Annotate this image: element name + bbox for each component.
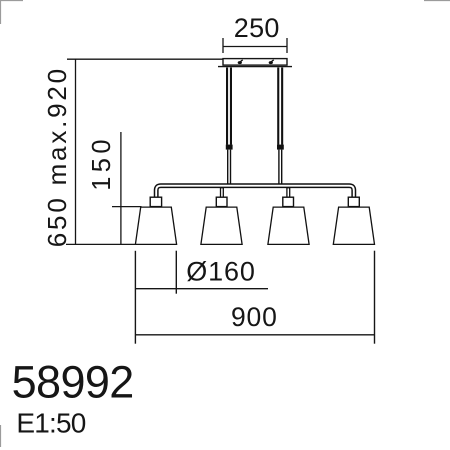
page corner mark top-right [424,0,450,2]
screw mark left [238,59,244,64]
socket 1 [150,197,161,206]
dimension 250 line [223,38,287,53]
svg-text:58992: 58992 [12,357,134,408]
dimension 900 line [135,334,374,336]
svg-text:900: 900 [231,302,278,332]
extension line shade top (150 tick) [112,206,142,208]
socket 3 [283,197,294,206]
horizontal bar tube with end elbows [156,186,354,198]
extension line shade1 right (Ø160 right tick) [175,251,177,294]
shade 4 [333,207,374,244]
extension line ceiling (650 top) [67,58,223,60]
screw mark right [269,59,275,64]
rod 2 adjuster [277,145,284,150]
suspension rod 2 upper tube [277,68,283,145]
rod 1 adjuster [226,145,233,150]
stub to socket 3 [286,188,290,198]
suspension rod 1 upper tube [226,68,232,145]
page corner mark top-left [0,0,23,24]
socket 2 [216,197,227,206]
extension line bottom-left (650 bottom tick) [66,243,136,245]
dimension 150 line [120,132,122,244]
shade 2 [201,207,242,244]
suspension rod 2 lower wire [278,150,282,184]
svg-text:150: 150 [88,135,116,191]
dimension 650 max.920 line [75,59,77,244]
svg-text:250: 250 [234,13,280,43]
socket 4 [348,197,359,206]
stub to socket 2 [220,188,224,198]
shade 1 [135,207,176,244]
page corner mark bottom-left [0,425,2,447]
svg-text:650 max.920: 650 max.920 [42,66,72,247]
extension line shade4 right / 900 right [374,251,376,344]
extension line shade1 left / 900 left [134,251,136,344]
svg-text:E1:50: E1:50 [16,407,85,438]
suspension rod 1 lower wire [227,150,231,184]
canopy (ceiling plate) [223,59,287,66]
shade 3 [268,207,309,244]
canopy under-line [218,66,292,68]
svg-text:Ø160: Ø160 [186,256,256,286]
dimension Ø160 line [135,288,268,290]
